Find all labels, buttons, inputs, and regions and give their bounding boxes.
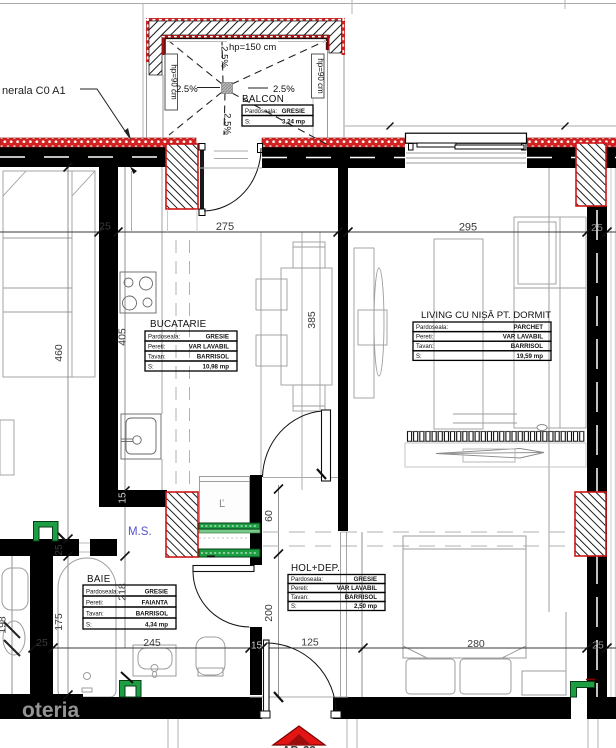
extension line x273 — [278, 485, 280, 697]
kitchen counter edge — [161, 167, 163, 414]
svg-text:25: 25 — [36, 637, 48, 649]
svg-text:S:: S: — [245, 119, 251, 125]
svg-text:198: 198 — [0, 616, 9, 634]
green corner right — [571, 682, 595, 698]
svg-text:VAR LAVABIL: VAR LAVABIL — [337, 585, 377, 592]
curtain arrow — [436, 449, 544, 463]
wall centerline dashes — [0, 156, 166, 158]
pier P4 bottom-right — [575, 492, 606, 556]
svg-text:Pereti:: Pereti: — [148, 344, 166, 350]
balcony slope lines — [169, 41, 330, 146]
svg-text:Pardoseala:: Pardoseala: — [416, 325, 448, 331]
svg-text:BARRISOL: BARRISOL — [197, 353, 230, 360]
tv unit — [354, 248, 387, 398]
chair left 1 — [256, 279, 287, 310]
balcony drain — [222, 83, 233, 94]
pier P2 top-right — [576, 143, 606, 206]
svg-text:Ľ: Ľ — [219, 498, 225, 510]
washbasin — [133, 645, 176, 678]
balcony door — [198, 144, 263, 216]
niche dashed boundary — [263, 531, 586, 533]
svg-text:HOL+DEP.: HOL+DEP. — [291, 563, 340, 574]
nightstand — [522, 671, 566, 695]
kitchen upper cabinets dashed — [175, 240, 177, 490]
svg-text:PARCHET: PARCHET — [514, 324, 544, 331]
dimension line y648 — [30, 647, 616, 649]
svg-text:25: 25 — [592, 640, 604, 652]
glass partition row — [408, 432, 585, 442]
site boundary line top — [0, 3, 616, 5]
dep closet — [200, 477, 250, 525]
extension line x362 — [361, 532, 363, 706]
ticks left line — [64, 163, 73, 172]
svg-text:S:: S: — [148, 364, 154, 370]
svg-text:2,50 mp: 2,50 mp — [354, 603, 377, 610]
svg-text:S:: S: — [291, 604, 297, 610]
svg-text:175: 175 — [53, 613, 65, 631]
top wall black segments — [0, 147, 166, 167]
neighbour wardrobe — [3, 171, 95, 377]
chair top — [293, 242, 325, 268]
wall W3 lower — [250, 627, 262, 695]
svg-text:GRESIE: GRESIE — [206, 333, 229, 340]
svg-text:280: 280 — [467, 638, 485, 650]
svg-text:LIVING CU NIȘĂ PT. DORMIT: LIVING CU NIȘĂ PT. DORMIT — [421, 310, 551, 321]
right wall W4 — [587, 206, 607, 716]
svg-text:GRESIE: GRESIE — [145, 588, 168, 595]
svg-text:245: 245 — [143, 637, 161, 649]
ticks y232 — [95, 228, 104, 237]
svg-text:60: 60 — [263, 510, 275, 522]
svg-text:125: 125 — [301, 637, 319, 649]
svg-text:Pereti:: Pereti: — [291, 586, 309, 592]
right edge faint lines — [610, 167, 612, 697]
ticks wall corners — [130, 167, 137, 175]
svg-text:BARRISOL: BARRISOL — [511, 343, 544, 350]
wall H1 — [118, 490, 167, 507]
window opening — [405, 133, 527, 167]
dimension line y232 — [0, 231, 616, 233]
svg-text:BARRISOL: BARRISOL — [136, 610, 169, 617]
svg-text:275: 275 — [216, 221, 234, 233]
svg-text:385: 385 — [306, 311, 318, 329]
bottom wall — [0, 694, 83, 719]
bed — [403, 536, 566, 695]
svg-text:405: 405 — [117, 328, 129, 346]
svg-text:19,59 mp: 19,59 mp — [517, 353, 544, 360]
bottom wall notch — [571, 681, 587, 697]
green slide bar 1 — [199, 523, 260, 529]
svg-text:BALCON: BALCON — [242, 94, 284, 105]
svg-text:218: 218 — [117, 583, 129, 601]
svg-text:2.5%: 2.5% — [176, 84, 198, 95]
pier P3 bath — [166, 492, 198, 557]
ticks window line — [387, 123, 394, 130]
wall W5 — [338, 167, 348, 531]
svg-text:Tavan:: Tavan: — [86, 611, 104, 617]
kitchen sink — [121, 414, 161, 459]
svg-text:S:: S: — [86, 622, 92, 628]
svg-text:Pardoseala:: Pardoseala: — [86, 589, 118, 595]
extension line x320 — [319, 232, 321, 410]
pier P1 balcony-left — [166, 144, 198, 209]
aux line left of balcony — [142, 4, 144, 138]
svg-text:GRESIE: GRESIE — [354, 576, 377, 583]
window posts — [409, 144, 414, 151]
svg-text:M.S.: M.S. — [128, 526, 152, 538]
ticks x278.5 — [274, 485, 283, 494]
svg-text:4,34 mp: 4,34 mp — [145, 621, 168, 628]
ticks y648 — [29, 644, 38, 653]
bathroom door — [193, 566, 254, 628]
extension line x302 — [301, 232, 303, 490]
svg-text:15: 15 — [118, 492, 129, 504]
dining table — [256, 242, 332, 411]
desk center — [434, 239, 517, 429]
roof overhang line right — [345, 125, 616, 127]
bathtub — [58, 558, 116, 697]
green slide bar 2 — [199, 549, 260, 557]
svg-text:25: 25 — [99, 221, 111, 233]
balcony parapet right — [343, 55, 345, 138]
svg-text:25: 25 — [54, 544, 65, 556]
chair left 2 — [256, 335, 287, 366]
insulation strip top — [0, 138, 196, 147]
svg-text:460: 460 — [53, 344, 65, 362]
svg-text:Tavan:: Tavan: — [291, 595, 309, 601]
balcony wall hatch — [149, 21, 342, 75]
svg-text:GRESIE: GRESIE — [282, 108, 305, 115]
balcony parapet left — [146, 62, 148, 138]
tub drain — [84, 673, 91, 680]
neighbour ticks — [4, 622, 20, 638]
svg-text:Tavan:: Tavan: — [416, 344, 434, 350]
table balcony — [242, 105, 313, 116]
svg-text:Pardoseala:: Pardoseala: — [148, 334, 180, 340]
svg-text:Pereti:: Pereti: — [86, 600, 104, 606]
partition band — [405, 443, 586, 467]
window sill lines — [406, 152, 526, 154]
extension line x125 — [124, 167, 126, 648]
wall W3 upper — [250, 475, 262, 565]
svg-text:BARRISOL: BARRISOL — [345, 594, 378, 601]
svg-text:Pereti:: Pereti: — [416, 335, 434, 341]
hp=90 right box — [312, 54, 325, 98]
ticks x125 — [121, 487, 130, 496]
neighbour bathroom fixtures — [2, 568, 28, 655]
green threshold U1 — [34, 522, 59, 542]
svg-text:oteria: oteria — [22, 699, 80, 722]
interior wall W1 — [99, 167, 118, 507]
svg-text:3,24 mp: 3,24 mp — [282, 118, 305, 125]
neighbour item lower left — [0, 420, 14, 475]
green threshold U2 — [120, 681, 142, 698]
svg-text:295: 295 — [459, 222, 477, 234]
handle ellipse — [537, 425, 547, 431]
svg-text:2.5%: 2.5% — [222, 113, 233, 135]
service lines below wall — [168, 719, 598, 748]
extension line x69 — [67, 167, 69, 697]
svg-text:15: 15 — [251, 641, 263, 652]
aux tick top right — [564, 0, 566, 9]
svg-text:nerala C0 A1: nerala C0 A1 — [2, 85, 66, 97]
extension line x549 — [548, 167, 550, 612]
stove — [120, 272, 156, 313]
balcony inner edge — [165, 38, 327, 40]
svg-text:25: 25 — [591, 222, 603, 234]
aux tick top middle — [351, 0, 353, 14]
balcony inner insulation band — [162, 35, 330, 55]
wall continuation gray — [340, 532, 342, 706]
hp=90 left box — [165, 54, 178, 110]
window sliders — [417, 143, 456, 147]
kitchen-hall door — [263, 410, 339, 481]
balcony outer insulation band — [146, 18, 345, 62]
svg-text:VAR LAVABIL: VAR LAVABIL — [189, 343, 229, 350]
window outer frame — [406, 133, 527, 143]
svg-text:200: 200 — [263, 604, 275, 622]
svg-text:10,98 mp: 10,98 mp — [203, 363, 230, 370]
svg-text:BAIE: BAIE — [87, 574, 111, 585]
svg-text:hp=90 cm: hp=90 cm — [316, 58, 325, 94]
svg-text:Pardoseala:: Pardoseala: — [291, 577, 323, 583]
chair bottom — [293, 385, 325, 411]
svg-text:Pardoseala:: Pardoseala: — [245, 109, 277, 115]
wall H2 — [0, 539, 79, 556]
extension line x12 — [11, 556, 13, 718]
entrance arrow — [273, 726, 325, 745]
svg-text:BUCATARIE: BUCATARIE — [150, 319, 207, 330]
wall W2 left — [30, 556, 53, 697]
svg-text:Tavan:: Tavan: — [148, 354, 166, 360]
svg-text:hp=150 cm: hp=150 cm — [229, 42, 276, 53]
toilet — [196, 637, 225, 676]
entrance door — [250, 640, 348, 718]
svg-text:2.5%: 2.5% — [219, 46, 230, 68]
svg-text:S:: S: — [416, 354, 422, 360]
svg-text:VAR LAVABIL: VAR LAVABIL — [503, 334, 543, 341]
svg-text:FAIANTA: FAIANTA — [142, 599, 169, 606]
extension line x261 — [260, 232, 262, 477]
slope leader lines — [197, 87, 220, 89]
hp=150 label — [167, 41, 327, 43]
wardrobe right — [514, 217, 586, 428]
